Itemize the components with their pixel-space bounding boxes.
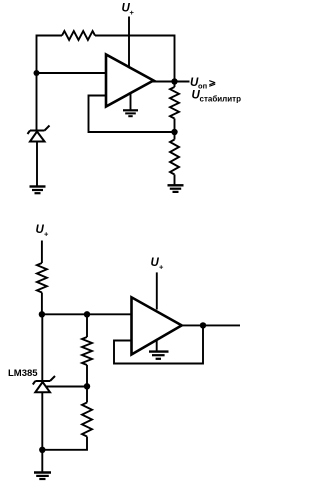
wire R5 to node D (86, 365, 88, 386)
wire R2 to feedback node (174, 119, 176, 140)
wire LM385 anode to bottom node (41, 392, 43, 472)
zener diode VD1 (28, 126, 50, 142)
wire output node to resistor R2 (174, 82, 176, 88)
svg-text:⩾: ⩾ (209, 78, 217, 88)
wire noninverting input circuit 1 (37, 72, 107, 74)
resistor R3 (divider bottom) (170, 140, 179, 175)
wire node D to R6 (86, 386, 88, 402)
svg-text:LM385: LM385 (8, 368, 38, 379)
op-amp U1 (106, 55, 154, 107)
wire top feedback rail circuit 1 (37, 35, 175, 37)
ground (circuit 2 bottom) (34, 473, 51, 480)
wire R4 to node B (41, 293, 43, 315)
wire output circuit 1 (152, 81, 190, 83)
wire node B to LM385 (41, 314, 43, 381)
node feedback junction circuit 1 (171, 129, 177, 135)
resistor R4 (bias from U+) (37, 263, 47, 293)
label U+ (circuit 2 op-amp supply) (151, 257, 165, 272)
node B junction circuit 2 (39, 311, 45, 317)
label U+ (circuit 2 left supply) (36, 224, 50, 239)
wire inverting input feedback loop circuit 1 (89, 96, 175, 133)
wire node C to resistor R5 (86, 314, 88, 337)
wire U+ supply pin circuit 1 (128, 17, 130, 67)
wire output circuit 2 (180, 324, 240, 326)
label Uоп output (190, 77, 216, 91)
resistor R2 (divider top) (170, 87, 179, 119)
wire U+ supply pin circuit 2 (156, 272, 158, 309)
wire node B to op-amp input (42, 313, 132, 315)
wire R6 to bottom node (42, 437, 87, 450)
node output junction circuit 1 (171, 78, 177, 84)
label U+ (circuit 1 supply) (122, 3, 135, 18)
svg-text:+: + (130, 8, 135, 17)
node output junction circuit 2 (200, 322, 206, 328)
zener diode LM385 reference (33, 376, 55, 392)
node E bottom junction circuit 2 (39, 447, 45, 453)
node A junction circuit 1 (34, 70, 40, 76)
label Uстабилитр (192, 90, 242, 104)
node D junction circuit 2 (84, 383, 90, 389)
wire LM385 cathode to node D (47, 386, 88, 388)
resistor R5 (divider top circuit 2) (82, 337, 92, 365)
label LM385 (8, 368, 38, 379)
op-amp U2 (132, 297, 182, 354)
ground (divider bottom circuit 1) (168, 185, 184, 192)
wire U+ to resistor R4 (41, 241, 43, 264)
svg-text:+: + (159, 263, 164, 272)
resistor R6 (divider bottom circuit 2) (82, 403, 92, 437)
resistor R1 (top feedback) (62, 31, 95, 40)
ground (op-amp U2 negative supply) (149, 340, 169, 359)
svg-text:стабилитр: стабилитр (200, 95, 242, 104)
wire right rail top circuit 1 (174, 36, 175, 82)
ground (left, circuit 1) (30, 187, 46, 194)
svg-text:+: + (44, 230, 49, 239)
wire left rail circuit 1 (36, 35, 38, 131)
wire zener to ground circuit 1 (36, 142, 38, 187)
node C junction circuit 2 (84, 311, 90, 317)
ground (op-amp U1 negative supply) (123, 93, 138, 116)
wire R3 to ground (174, 175, 176, 186)
wire feedback loop circuit 2 (114, 325, 203, 363)
